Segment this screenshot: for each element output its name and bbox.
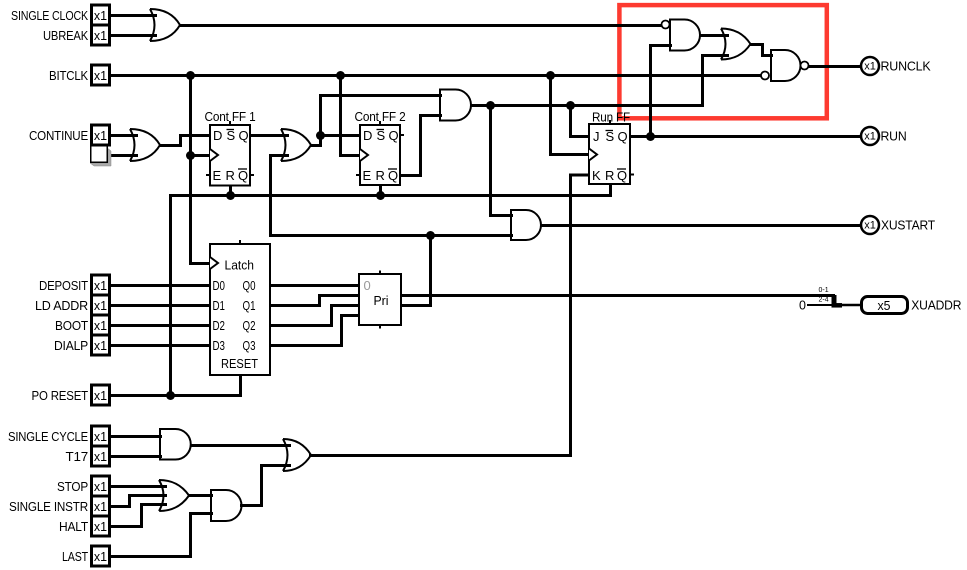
wire cont AND output run (net SYNC) [472, 104, 703, 107]
input box DEPOSIT x1 [92, 275, 110, 295]
svg-text:R: R [376, 168, 385, 183]
svg-text:UBREAK: UBREAK [43, 28, 88, 43]
wire Latch Q0 to Pri in0 [271, 284, 360, 287]
terminal circle XUSTART [861, 216, 879, 234]
flip-flop Run FF body [589, 124, 630, 184]
svg-text:x1: x1 [94, 319, 107, 333]
OR gate U12 (stop run collector) [283, 439, 311, 471]
svg-text:LD ADDR: LD ADDR [35, 298, 88, 313]
flip-flop Cont FF 2 body [360, 125, 400, 185]
svg-text:D3: D3 [213, 338, 226, 353]
svg-text:Q0: Q0 [243, 278, 256, 293]
wire drop to Run FF J input [571, 106, 590, 137]
wire Latch Q3 to Pri in3 [271, 316, 360, 346]
svg-text:D2: D2 [213, 318, 226, 333]
OR gate U10 (STOP + SINGLE INSTR + HALT) [159, 480, 189, 511]
NAND gate U6 (inverted top input) [670, 20, 700, 51]
svg-text:E: E [213, 168, 222, 183]
wire reset line E-R [171, 194, 571, 197]
svg-text:0: 0 [364, 278, 371, 293]
wire Pri feedback bus to XUSTART AND lower input [271, 234, 512, 237]
clock chevron Run FF [589, 149, 597, 161]
wire Run FF K input from stop net [311, 175, 590, 456]
pin stub Cont FF 2 E [356, 174, 360, 176]
OR gate U2 (CONTINUE) [130, 129, 160, 161]
svg-text:CONTINUE: CONTINUE [29, 128, 88, 143]
junction BITCLK / Run clock drop [546, 71, 555, 80]
svg-text:XUSTART: XUSTART [881, 218, 935, 233]
svg-text:x1: x1 [94, 520, 107, 534]
svg-text:Cont FF 1: Cont FF 1 [205, 109, 256, 124]
input box UBREAK x1 [92, 25, 110, 45]
svg-text:SINGLE CLOCK: SINGLE CLOCK [11, 8, 88, 23]
svg-text:Q2: Q2 [243, 318, 256, 333]
terminal circle RUNCLK [861, 57, 879, 75]
svg-text:D1: D1 [213, 298, 226, 313]
svg-text:x1: x1 [94, 299, 107, 313]
wire SINGLE INSTR to OR3 [112, 496, 166, 507]
highlight rectangle (red annotation) [619, 5, 826, 118]
wire BITCLK drop to Cont FF 1 clock [191, 76, 211, 156]
bubble U8 lower input [761, 72, 769, 80]
OR gate U1 (SINGLE CLOCK + UBREAK) [150, 9, 180, 41]
wire BITCLK drop to Cont FF 2 clock [341, 76, 361, 156]
svg-text:LAST: LAST [62, 549, 88, 564]
svg-text:Q: Q [389, 128, 399, 143]
svg-text:x1: x1 [94, 9, 107, 23]
pin stub Cont FF 2 Q [400, 134, 404, 136]
svg-text:Q3: Q3 [243, 338, 256, 353]
flip-flop Cont FF 1 body [210, 125, 250, 186]
svg-text:Latch: Latch [225, 258, 255, 273]
wire OR3 output to AND2 [190, 494, 212, 497]
wire node up to cont AND top input [321, 96, 441, 136]
svg-text:Q: Q [618, 129, 628, 144]
bubble U8 output [801, 62, 809, 70]
output box x5 XUADDR [862, 297, 908, 314]
svg-text:R: R [226, 168, 235, 183]
svg-text:BOOT: BOOT [55, 318, 88, 333]
wire DIALP to Latch D3 [112, 344, 211, 347]
junction feedback bus / Pri out2 [426, 231, 435, 240]
svg-text:2-4: 2-4 [819, 297, 829, 304]
input box PO RESET x1 [92, 385, 110, 405]
wire BITCLK drop to Run FF clock [551, 76, 590, 155]
wire HALT to OR3 [112, 505, 166, 527]
wire constant 0 to merge [808, 304, 834, 306]
svg-text:Q1: Q1 [243, 298, 256, 313]
terminal circle RUN [861, 127, 879, 145]
wire LAST to AND2 [112, 514, 212, 557]
clock chevron Latch [210, 257, 218, 269]
input box STOP x1 [92, 476, 110, 496]
wire SINGLE CLOCK to OR [112, 14, 156, 17]
wire UBREAK to OR [112, 34, 156, 37]
svg-text:RESET: RESET [221, 356, 258, 371]
wire SYNC riser to red OR lower input [703, 56, 728, 106]
wire OR output to NAND inverted input (net CLK1) [181, 24, 661, 27]
input box BOOT x1 [92, 315, 110, 335]
bus merge riser (thick) [832, 295, 837, 305]
wire BITCLK main run [112, 74, 761, 77]
pin stub Cont FF 2 S top [379, 121, 381, 125]
input box LD ADDR x1 [92, 295, 110, 315]
svg-text:0-1: 0-1 [819, 287, 829, 294]
svg-text:D: D [213, 128, 222, 143]
pin stub Cont FF 1 Qbar [250, 174, 254, 176]
priority encoder Pri body [359, 274, 401, 325]
input box BITCLK x1 [92, 65, 110, 85]
bubble U6 input [662, 21, 670, 29]
svg-text:S: S [606, 129, 615, 144]
junction FF1 clock tap [186, 151, 195, 160]
pin stub Run FF S top [609, 120, 611, 124]
wire Pri out2 riser to feedback bus [402, 236, 431, 306]
input box SINGLE CYCLE x1 [92, 426, 110, 446]
wire OR2 lower input riser [271, 156, 288, 236]
input box SINGLE INSTR x1 [92, 496, 110, 516]
AND gate U5 (XUSTART) [511, 210, 541, 240]
input box T17 x1 [92, 446, 110, 466]
junction FF1 R stub on reset line [226, 191, 235, 200]
wire Cont FF 2 Qbar to cont AND lower input [401, 116, 441, 176]
svg-text:S: S [377, 128, 386, 143]
wire NAND1 output to OR [701, 34, 728, 37]
svg-text:SINGLE CYCLE: SINGLE CYCLE [8, 429, 88, 444]
svg-text:x1: x1 [94, 450, 107, 464]
push button body [91, 146, 108, 163]
svg-text:Q: Q [239, 128, 249, 143]
pin stub Pri bottom [379, 325, 381, 329]
svg-text:DIALP: DIALP [54, 338, 88, 353]
wire Q riser to NAND lower input [651, 46, 671, 137]
input box SINGLE CLOCK x1 [92, 5, 110, 25]
svg-text:x1: x1 [94, 279, 107, 293]
svg-text:Q: Q [388, 168, 398, 183]
svg-text:x1: x1 [864, 131, 876, 143]
svg-text:x1: x1 [94, 430, 107, 444]
svg-text:x5: x5 [878, 298, 891, 313]
wire Run FF R stub to reset line [571, 185, 611, 196]
svg-text:R: R [605, 168, 614, 183]
svg-text:Cont FF 2: Cont FF 2 [355, 109, 406, 124]
wire BITCLK drop continues to Latch clock [191, 156, 211, 264]
svg-text:x1: x1 [864, 220, 876, 232]
svg-text:E: E [363, 168, 372, 183]
svg-text:K: K [592, 168, 601, 183]
svg-text:0: 0 [799, 299, 806, 313]
svg-text:x1: x1 [94, 339, 107, 353]
push button shadow under CONTINUE [90, 149, 111, 167]
pin stub Pri top [379, 271, 381, 275]
AND gate U9 (SINGLE CYCLE + T17) [160, 429, 191, 460]
junction OR2 output node [316, 131, 325, 140]
wire PO RESET to Latch RESET [112, 376, 241, 396]
svg-text:x1: x1 [94, 389, 107, 403]
svg-text:Q: Q [238, 168, 248, 183]
wire button to OR [111, 154, 137, 157]
pin stub Run FF Qbar [630, 174, 634, 176]
svg-text:BITCLK: BITCLK [49, 68, 88, 83]
wire Pri out bits 0-1 to bus merge [402, 294, 834, 297]
wire Latch Q2 to Pri in2 [271, 306, 360, 326]
bus merge bar to x5 [832, 303, 843, 308]
svg-text:Pri: Pri [374, 293, 389, 308]
pin stub Latch top [239, 240, 241, 244]
svg-text:x1: x1 [94, 29, 107, 43]
svg-text:x1: x1 [94, 69, 107, 83]
OR gate U7 (in highlight box) [721, 29, 751, 60]
svg-text:DEPOSIT: DEPOSIT [39, 278, 88, 293]
svg-text:x1: x1 [94, 500, 107, 514]
input box CONTINUE x1 [92, 125, 110, 145]
junction SYNC / XUSTART drop [486, 101, 495, 110]
latch body [210, 244, 270, 375]
wire merge to x5 box [842, 304, 861, 307]
svg-text:S: S [227, 128, 236, 143]
input box HALT x1 [92, 516, 110, 536]
clock chevron Cont FF 1 [210, 149, 218, 161]
wire AND2 output to big OR lower input [242, 466, 290, 506]
junction BITCLK / FF1 clock drop [186, 71, 195, 80]
svg-text:Run FF: Run FF [592, 110, 630, 125]
wire red OR output to NAND2 [751, 45, 772, 56]
svg-text:D0: D0 [213, 278, 226, 293]
input box DIALP x1 [92, 335, 110, 355]
NAND gate U8 (RUNCLK) [771, 50, 801, 81]
clock chevron Cont FF 2 [360, 149, 368, 161]
wire Run FF Q to RUN terminal [631, 135, 862, 138]
svg-text:HALT: HALT [59, 519, 88, 534]
junction BITCLK / FF2 clock drop [336, 71, 345, 80]
wire OR2 output to Cont FF 2 D [312, 136, 361, 146]
wire T17 to AND [112, 455, 161, 458]
svg-text:XUADDR: XUADDR [911, 298, 961, 313]
junction PO RESET / reset drop [166, 391, 175, 400]
svg-text:RUN: RUN [881, 129, 907, 144]
input box LAST x1 [92, 546, 110, 566]
svg-text:Q: Q [617, 168, 627, 183]
svg-text:T17: T17 [66, 449, 89, 464]
svg-text:x1: x1 [94, 550, 107, 564]
wire BOOT to Latch D2 [112, 324, 211, 327]
OR gate U3 (between Cont FF 1 and Cont FF 2) [281, 129, 311, 161]
wire XUSTART AND output to terminal [542, 224, 862, 227]
svg-text:PO RESET: PO RESET [32, 388, 89, 403]
svg-text:x1: x1 [864, 61, 876, 73]
wire STOP to OR3 [112, 485, 166, 488]
wire Cont FF 1 R stub [229, 186, 232, 196]
wire LD ADDR to Latch D1 [112, 304, 211, 307]
wire drop to XUSTART AND top input [491, 106, 512, 216]
svg-text:x1: x1 [94, 129, 107, 143]
wire SINGLE CYCLE to AND [112, 435, 161, 438]
wire CONTINUE to OR [112, 134, 137, 137]
wire Cont FF 2 R stub [379, 186, 382, 196]
wire CONTINUE-OR output to Cont FF 1 D [161, 136, 211, 146]
wire NAND2 output to RUNCLK terminal [810, 65, 862, 68]
wire Cont FF 1 Q to OR2 [251, 134, 288, 137]
wire AND1 output to big OR [192, 444, 290, 447]
svg-text:SINGLE INSTR: SINGLE INSTR [9, 499, 88, 514]
svg-text:RUNCLK: RUNCLK [881, 59, 931, 74]
svg-text:J: J [593, 129, 600, 144]
wire reset line drop to PO RESET [169, 196, 172, 396]
junction FF2 R stub on reset line [376, 191, 385, 200]
wire DEPOSIT to Latch D0 [112, 284, 211, 287]
pin stub Cont FF 1 S top [229, 121, 231, 125]
wire Latch Q1 to Pri in1 [271, 296, 360, 306]
junction RUN / NAND riser [646, 132, 655, 141]
pin stub Cont FF 1 E [206, 174, 210, 176]
svg-text:STOP: STOP [57, 479, 88, 494]
AND gate U11 (stop + LAST) [211, 490, 241, 521]
svg-text:x1: x1 [94, 480, 107, 494]
AND gate U4 (cont sync) [440, 90, 471, 121]
junction SYNC / J drop [566, 101, 575, 110]
svg-text:D: D [363, 128, 372, 143]
